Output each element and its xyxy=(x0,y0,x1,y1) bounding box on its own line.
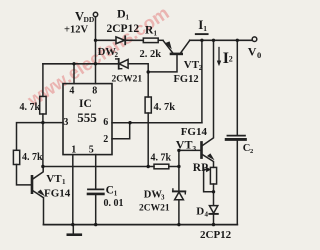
node rail pin1 xyxy=(71,223,74,226)
diode D1 xyxy=(116,37,125,44)
terminal Vo xyxy=(252,37,257,42)
svg-text:6: 6 xyxy=(103,117,108,128)
wire top supply y40 xyxy=(96,39,144,41)
capacitor C1 xyxy=(88,188,103,190)
svg-text:1: 1 xyxy=(203,24,207,33)
wire pin 1 riser xyxy=(72,155,74,225)
wire left column lower xyxy=(42,114,44,167)
svg-text:0: 0 xyxy=(257,50,261,60)
wire resistor to divider xyxy=(169,166,179,168)
node pin6-2 xyxy=(128,121,131,124)
node rail C1 xyxy=(94,223,97,226)
node rail D4 xyxy=(212,223,215,226)
svg-text:2. 2k: 2. 2k xyxy=(140,49,162,60)
wire bottom rail xyxy=(44,224,238,226)
svg-text:VT: VT xyxy=(184,59,200,71)
wire top rail xyxy=(190,39,252,41)
wire divider vertical lower xyxy=(178,200,180,225)
wire left 4.7k column upper xyxy=(42,64,44,97)
wire VT1 collector net y166 xyxy=(43,166,154,168)
wire C1 to rail xyxy=(95,195,97,224)
svg-text:FG14: FG14 xyxy=(44,187,71,199)
node rail DW3 xyxy=(177,223,180,226)
wire resistor down crossing xyxy=(147,113,149,167)
wire DW2 to node xyxy=(128,64,148,72)
svg-text:8: 8 xyxy=(92,85,97,96)
svg-text:+12V: +12V xyxy=(64,24,88,35)
svg-text:FG12: FG12 xyxy=(174,74,199,85)
wire pin 5 riser xyxy=(95,155,97,189)
svg-text:RP: RP xyxy=(193,162,208,174)
node divider resistor xyxy=(177,165,180,168)
svg-text:1: 1 xyxy=(154,29,158,37)
svg-text:3: 3 xyxy=(63,117,68,128)
svg-text:D: D xyxy=(196,206,204,218)
wire net DW2 y64 xyxy=(43,63,119,65)
wire C2 to rail xyxy=(236,141,238,225)
svg-text:4. 7k: 4. 7k xyxy=(22,152,43,163)
current arrow I1 underline xyxy=(196,33,208,35)
svg-text:2CP12: 2CP12 xyxy=(107,23,140,35)
current arrow I2 xyxy=(218,48,220,63)
IC 555 box xyxy=(63,84,112,155)
node rail VT3 xyxy=(212,39,215,42)
svg-text:FG14: FG14 xyxy=(181,126,208,138)
svg-text:0. 01: 0. 01 xyxy=(104,198,124,209)
svg-text:2: 2 xyxy=(199,64,203,72)
transistor VT2 xyxy=(163,40,173,52)
svg-text:2: 2 xyxy=(250,148,253,155)
node resistor join xyxy=(147,165,150,168)
svg-text:2CW21: 2CW21 xyxy=(112,75,143,85)
svg-text:3: 3 xyxy=(161,194,165,202)
wire riser to top rail xyxy=(201,40,203,122)
resistor 4.7k horizontal xyxy=(154,164,169,169)
wire D4 to rail xyxy=(213,215,215,225)
svg-text:555: 555 xyxy=(77,110,97,125)
node pin3 cross xyxy=(41,121,44,124)
node VDD-supply xyxy=(94,39,97,42)
capacitor C2 xyxy=(227,135,245,137)
wire pin 6 xyxy=(112,122,202,124)
resistor 4.7k lower-left xyxy=(13,150,19,164)
svg-text:VT: VT xyxy=(176,138,193,152)
svg-text:4: 4 xyxy=(205,211,209,219)
svg-text:2CW21: 2CW21 xyxy=(139,204,170,214)
svg-text:1: 1 xyxy=(114,190,118,198)
resistor 4.7k upper-left xyxy=(40,96,46,114)
svg-text:5: 5 xyxy=(89,145,94,156)
wire pin 4 riser xyxy=(73,64,75,84)
svg-text:2: 2 xyxy=(229,55,233,64)
node rail C2 xyxy=(236,39,239,42)
svg-text:VT: VT xyxy=(46,173,62,185)
svg-text:DW: DW xyxy=(144,190,163,201)
transistor VT3 xyxy=(200,142,203,157)
svg-text:4. 7k: 4. 7k xyxy=(20,102,41,113)
terminal VDD xyxy=(93,12,97,16)
wire VDD vertical to pin 8 xyxy=(95,17,97,84)
svg-text:4: 4 xyxy=(69,85,74,96)
wire C2 riser xyxy=(236,40,238,135)
wire pin 3 xyxy=(17,123,64,151)
zener DW2 xyxy=(119,59,128,68)
node rail riser xyxy=(200,39,203,42)
svg-text:4. 7k: 4. 7k xyxy=(154,102,176,113)
resistor 4.7k upper-right xyxy=(145,97,151,113)
node VT3 base xyxy=(177,149,180,152)
node VDD-zener xyxy=(94,62,97,65)
wire RP bottom xyxy=(213,184,215,206)
node pin4 tap xyxy=(72,62,75,65)
wire VT2 base lead xyxy=(148,55,177,72)
svg-text:V: V xyxy=(248,44,257,58)
svg-text:3: 3 xyxy=(192,144,196,153)
transistor VT1 xyxy=(31,176,34,192)
wire R1 to VT2 emitter xyxy=(158,39,163,41)
node base VT2 xyxy=(147,70,150,73)
svg-text:2: 2 xyxy=(103,134,108,145)
resistor R1 xyxy=(143,38,158,43)
svg-text:4. 7k: 4. 7k xyxy=(151,153,172,164)
node VT1 collector xyxy=(41,165,44,168)
wire node to resistor xyxy=(147,72,149,97)
svg-text:1: 1 xyxy=(126,14,130,22)
svg-text:2CP12: 2CP12 xyxy=(200,229,232,241)
ground xyxy=(72,225,74,234)
svg-text:DD: DD xyxy=(84,15,95,24)
node RP wiper xyxy=(212,190,215,193)
svg-text:1: 1 xyxy=(71,145,76,156)
svg-text:2: 2 xyxy=(115,51,119,59)
svg-text:C: C xyxy=(106,185,114,197)
wire VT3 base net xyxy=(179,149,201,151)
svg-text:1: 1 xyxy=(62,178,66,186)
zener DW3 xyxy=(173,190,185,192)
svg-text:IC: IC xyxy=(79,98,92,110)
wire to VT1 base xyxy=(17,165,32,185)
diode D4 xyxy=(209,206,217,214)
potentiometer RP xyxy=(210,167,216,184)
wire pin 2 xyxy=(112,123,130,139)
wire divider vertical upper xyxy=(178,150,180,190)
